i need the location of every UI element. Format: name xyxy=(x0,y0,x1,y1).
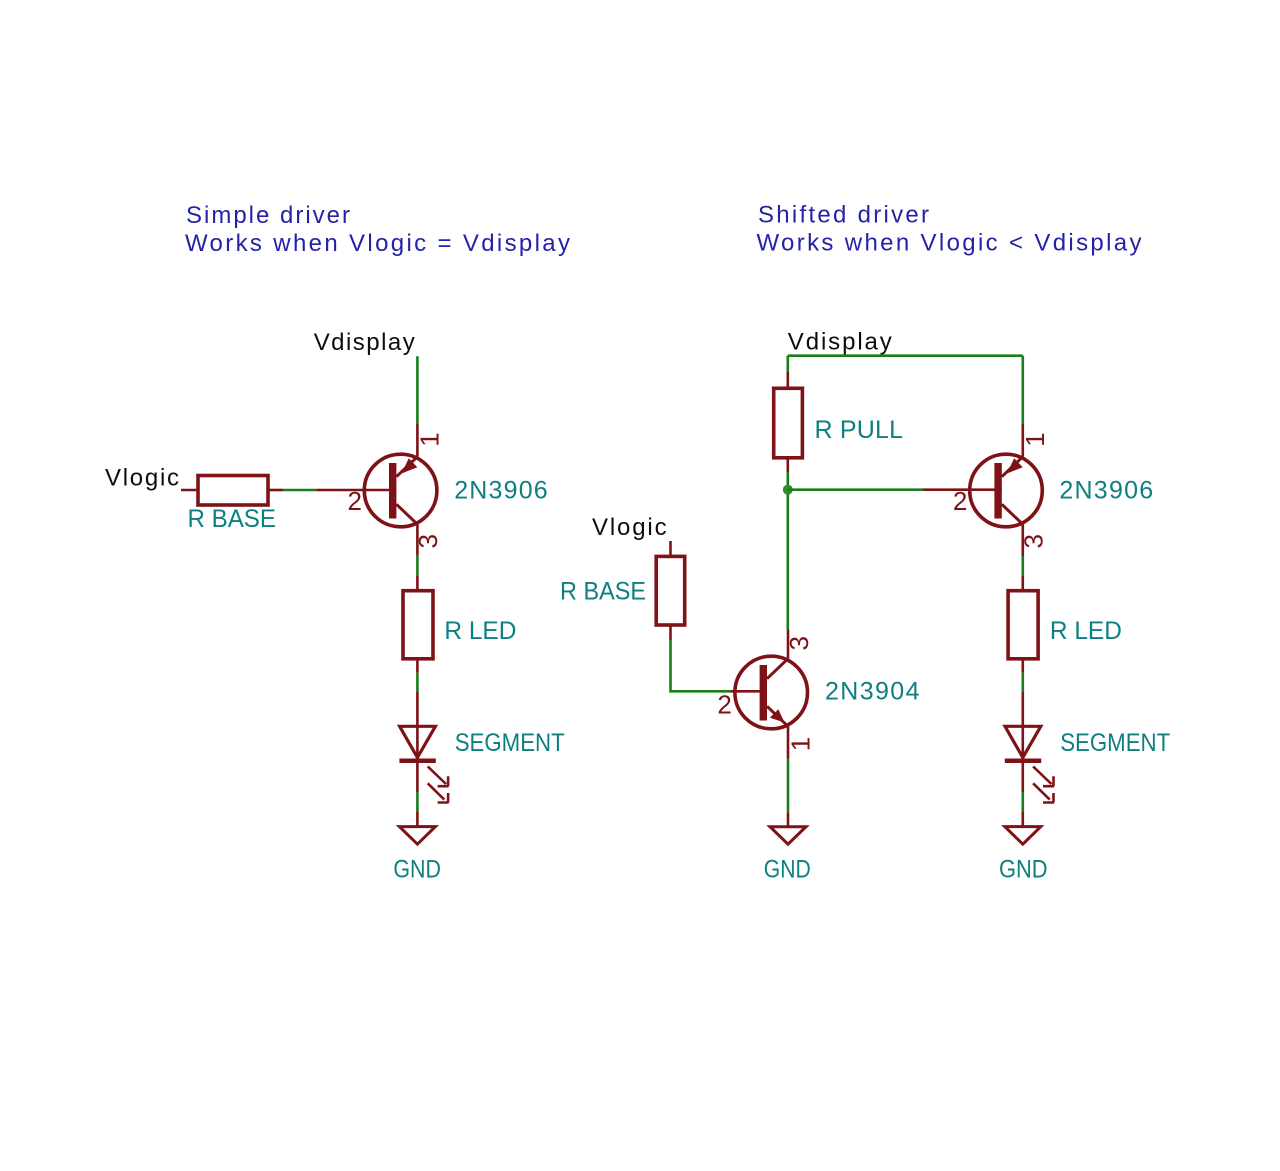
svg-text:R LED: R LED xyxy=(1050,617,1122,645)
wire Q3 collector to R LED (right) xyxy=(1021,556,1024,576)
wire R LED to LED D2 xyxy=(1021,673,1024,692)
svg-text:1: 1 xyxy=(1020,432,1050,446)
pin stub bottom of R PULL xyxy=(786,458,789,472)
wire LED to GND (left) xyxy=(416,763,419,792)
wire R PULL to Q2 collector xyxy=(786,472,789,630)
wire junction to Q3 base xyxy=(788,488,923,491)
svg-text:Works when Vlogic = Vdisplay: Works when Vlogic = Vdisplay xyxy=(185,230,570,257)
pin stub bottom of R LED (right) xyxy=(1021,659,1024,673)
pin 3 stub of Q1 xyxy=(416,524,419,556)
resistor R BASE (right, vertical) xyxy=(656,556,685,625)
pin 3 stub of Q3 xyxy=(1021,524,1024,556)
svg-text:R BASE: R BASE xyxy=(188,505,277,533)
transistor Q2 2N3904 (NPN) xyxy=(731,656,808,729)
svg-text:GND: GND xyxy=(764,856,811,884)
LED D2 SEGMENT (right) xyxy=(1005,692,1054,803)
pin stub bottom of R LED xyxy=(416,659,419,673)
wire R BASE to Q1 base xyxy=(283,489,316,492)
transistor Q1 2N3906 (PNP) xyxy=(316,454,437,527)
pin stub top of R PULL xyxy=(786,372,789,388)
svg-text:R PULL: R PULL xyxy=(815,416,904,444)
transistor Q3 2N3906 (PNP, right) xyxy=(923,454,1042,527)
pin stub right of R BASE xyxy=(268,489,283,492)
pin stub top of R LED xyxy=(416,576,419,591)
pin 1 stub of Q2 xyxy=(787,726,790,758)
resistor R BASE (left, horizontal) xyxy=(198,476,268,506)
svg-text:Vlogic: Vlogic xyxy=(105,465,179,492)
svg-text:2: 2 xyxy=(717,689,731,719)
ground GND (right) xyxy=(1005,811,1041,844)
wire Vdisplay to Q1 pin1 xyxy=(416,356,419,423)
pin 1 stub of Q3 xyxy=(1021,424,1024,457)
wire Vlogic to R BASE xyxy=(181,489,198,492)
pin 3 stub of Q2 xyxy=(787,630,790,659)
pin stub bottom of R BASE (right) xyxy=(669,625,672,640)
svg-text:R BASE: R BASE xyxy=(560,578,646,606)
resistor R LED (right, vertical) xyxy=(1008,591,1038,659)
wire rail down to Q3 pin1 xyxy=(1021,356,1024,424)
wire Q2 emitter to GND xyxy=(787,759,790,813)
svg-text:2: 2 xyxy=(348,486,362,516)
wire R LED to LED D1 xyxy=(416,673,419,692)
svg-text:Vdisplay: Vdisplay xyxy=(788,329,892,356)
wire Q1 collector to R LED xyxy=(416,556,419,576)
pin stub top of R LED (right) xyxy=(1021,576,1024,591)
resistor R PULL xyxy=(774,388,803,458)
pin 1 stub of Q1 xyxy=(416,423,419,456)
ground GND (left) xyxy=(399,811,435,844)
wire LED to GND (right) xyxy=(1021,763,1024,792)
wire R BASE down and to Q2 base xyxy=(671,640,731,691)
svg-text:SEGMENT: SEGMENT xyxy=(455,729,565,757)
svg-text:Works when Vlogic < Vdisplay: Works when Vlogic < Vdisplay xyxy=(757,230,1142,257)
pin stub top of R BASE (right) xyxy=(669,541,672,556)
svg-text:Vlogic: Vlogic xyxy=(592,514,667,541)
LED D1 SEGMENT (left) xyxy=(399,692,448,803)
svg-text:R LED: R LED xyxy=(444,617,516,645)
svg-text:GND: GND xyxy=(393,856,441,884)
svg-text:1: 1 xyxy=(415,432,445,446)
junction node xyxy=(783,485,793,495)
svg-text:SEGMENT: SEGMENT xyxy=(1060,729,1170,757)
svg-text:Vdisplay: Vdisplay xyxy=(314,329,415,356)
wire top rail Vdisplay xyxy=(788,354,1023,357)
resistor R LED (left, vertical) xyxy=(403,591,433,659)
wire rail down to R PULL xyxy=(786,356,789,372)
svg-text:GND: GND xyxy=(999,856,1048,884)
svg-text:2: 2 xyxy=(953,486,967,516)
svg-text:1: 1 xyxy=(785,737,815,751)
ground GND (middle) xyxy=(770,812,806,844)
